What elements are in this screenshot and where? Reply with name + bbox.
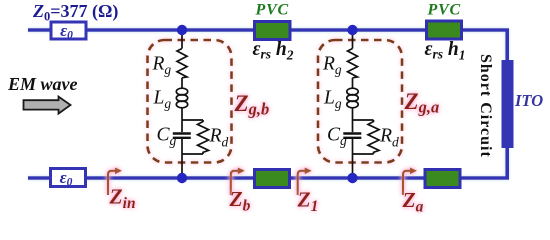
node top 2: [347, 25, 357, 35]
capacitor Cg 2: [343, 132, 361, 134]
wire node to resistor: [352, 30, 354, 49]
svg-text:ITO: ITO: [514, 91, 543, 110]
dashed box Z_g,a: [318, 40, 402, 163]
wire to capacitor: [352, 120, 354, 132]
box epsilon0 bottom: [51, 168, 86, 189]
wire split bottom bar: [353, 153, 374, 155]
arrow Z_in: [108, 168, 122, 196]
ITO electrode bar: [502, 60, 514, 148]
arrow Z_b: [231, 168, 245, 196]
arrow Z_1: [298, 168, 312, 196]
wire to capacitor: [181, 120, 183, 132]
wire top transmission line and short-circuit loop: [28, 30, 507, 178]
resistor Rd 2: [368, 120, 379, 154]
svg-text:PVC: PVC: [427, 2, 462, 19]
svg-text:EM wave: EM wave: [7, 74, 78, 94]
node bottom 2: [347, 173, 357, 183]
svg-text:Short Circuit: Short Circuit: [477, 54, 494, 158]
PVC slab bottom 1: [255, 170, 290, 188]
wire capacitor down: [352, 139, 354, 154]
node bottom 1: [177, 173, 187, 183]
wire split top bar: [353, 119, 374, 121]
branch 1: [173, 30, 209, 178]
EM wave arrow: [24, 97, 71, 114]
resistor Rg 2: [348, 49, 358, 78]
wire to bottom node 1: [181, 154, 183, 178]
wire node to resistor: [181, 30, 183, 49]
box epsilon0 top: [51, 21, 86, 42]
wire split bottom bar: [182, 153, 203, 155]
wire capacitor down: [181, 139, 183, 154]
capacitor Cg 1: [173, 132, 191, 134]
inductor Lg 2: [347, 88, 358, 95]
branch 2: [343, 30, 379, 178]
resistor Rd 1: [198, 120, 209, 154]
PVC slab top 1: [255, 22, 291, 40]
wire inductor to split: [181, 108, 183, 120]
inductor Lg 1: [176, 88, 187, 95]
PVC slab top 2: [427, 21, 462, 39]
dashed box Z_g,b: [148, 40, 232, 163]
wire resistor to inductor: [352, 78, 354, 88]
wire to bottom node 2: [352, 154, 354, 178]
wire split top bar: [182, 119, 203, 121]
wire inductor to split: [352, 108, 354, 120]
arrow Z_a: [403, 168, 417, 196]
resistor Rg 1: [177, 49, 187, 78]
PVC slab bottom 2: [425, 170, 460, 188]
wire resistor to inductor: [181, 78, 183, 88]
svg-text:PVC: PVC: [255, 2, 290, 19]
node top 1: [177, 25, 187, 35]
